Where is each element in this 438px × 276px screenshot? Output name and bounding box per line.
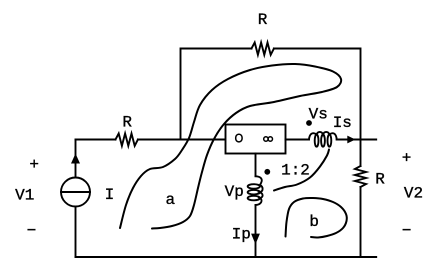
svg-text:−: −: [402, 222, 412, 240]
resistor R3 (right load): [355, 166, 366, 187]
svg-text:Ip: Ip: [232, 226, 251, 244]
svg-text:b: b: [309, 213, 319, 231]
wire top feedback right segment: [274, 49, 361, 140]
svg-text:R: R: [122, 113, 132, 131]
arrow Is (secondary current): [347, 136, 355, 144]
resistor R2 (left series): [116, 134, 138, 146]
svg-text:+: +: [29, 156, 39, 174]
wire secondary to right rail with stub: [337, 139, 377, 141]
wire primary to bottom rail: [255, 205, 257, 257]
svg-text:−: −: [27, 222, 37, 240]
wire R2 to nullor box: [138, 139, 226, 141]
svg-text:R: R: [258, 11, 268, 29]
current source I1 circle: [61, 178, 90, 207]
svg-text:V2: V2: [404, 185, 423, 203]
wire right rail lower: [360, 187, 362, 257]
wire middle left (source node to R2): [76, 139, 116, 141]
svg-text:Is: Is: [333, 114, 352, 132]
svg-text:a: a: [165, 191, 175, 209]
label 0 in nullor box (drawn glyph): [236, 134, 242, 142]
inductor Ls (transformer secondary): [309, 132, 337, 140]
svg-text:V1: V1: [15, 187, 34, 205]
svg-text:+: +: [402, 150, 412, 168]
wire left rail lower: [75, 207, 77, 258]
wire left rail upper: [75, 140, 77, 178]
nullor box U1: [226, 125, 286, 154]
infinity symbol in nullor box: [264, 137, 273, 141]
inductor Lp (transformer primary): [256, 176, 263, 205]
cut curve b loop: [286, 198, 347, 238]
polarity dot primary: [264, 169, 270, 175]
resistor R1 (top feedback): [252, 43, 274, 55]
svg-text:Vp: Vp: [225, 183, 244, 201]
cut curve b arc near transformer: [274, 150, 329, 191]
svg-text:R: R: [375, 171, 385, 189]
svg-text:I: I: [105, 186, 115, 204]
current source I1 chord: [61, 191, 90, 193]
wire right rail upper: [360, 140, 362, 167]
wire box to secondary: [286, 139, 310, 141]
wire top feedback left segment: [181, 49, 252, 140]
arrow of current source I1: [71, 154, 80, 164]
wire bottom rail: [76, 256, 377, 258]
svg-text:1:2: 1:2: [281, 162, 310, 180]
polarity dot secondary: [306, 120, 312, 126]
cut curve a: [120, 64, 341, 229]
arrow Ip (primary current): [251, 234, 260, 245]
wire box bottom to primary: [255, 154, 257, 177]
svg-text:Vs: Vs: [309, 105, 328, 123]
